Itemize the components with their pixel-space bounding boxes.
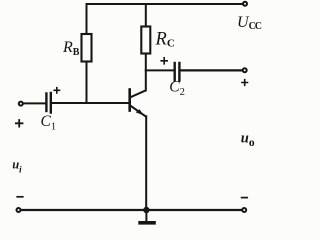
resistor RC xyxy=(141,27,150,54)
svg-text:uo: uo xyxy=(241,131,255,149)
svg-text:ui: ui xyxy=(12,158,22,175)
wire input to C1 xyxy=(24,102,45,104)
plus sign near C2 xyxy=(161,58,167,64)
wire RC top lead xyxy=(145,4,147,27)
terminal bottom-left xyxy=(17,208,21,212)
minus sign bottom-right xyxy=(242,197,248,199)
ground xyxy=(145,212,147,221)
wire RB bottom lead xyxy=(86,62,88,103)
svg-text:C2: C2 xyxy=(169,78,185,98)
svg-text:RC: RC xyxy=(155,30,175,50)
plus sign below input terminal xyxy=(16,120,23,127)
terminal bottom-right xyxy=(242,208,246,212)
transistor Q1 base bar xyxy=(128,90,131,111)
wire emitter vertical xyxy=(145,116,147,209)
wire C2 branch xyxy=(146,69,174,71)
wire bottom rail xyxy=(21,209,241,211)
terminal input xyxy=(19,102,23,106)
transistor Q1 emitter diagonal with arrow xyxy=(130,106,145,117)
svg-text:C1: C1 xyxy=(41,113,57,133)
wire RB top lead xyxy=(86,4,88,34)
wire C1 to base xyxy=(52,102,129,104)
plus sign below output terminal xyxy=(242,80,248,86)
wire top rail Ucc xyxy=(87,3,243,5)
junction dot emitter/ground xyxy=(143,207,149,213)
capacitor C1 xyxy=(45,94,47,112)
resistor RB xyxy=(82,34,92,62)
capacitor C2 xyxy=(173,63,175,81)
terminal Ucc xyxy=(243,2,247,6)
wire C2 to output xyxy=(181,69,242,71)
plus sign near C1 xyxy=(54,88,59,93)
transistor Q1 collector diagonal xyxy=(130,91,145,98)
minus sign bottom-left xyxy=(17,196,23,198)
svg-text:RB: RB xyxy=(62,39,80,58)
wire RC bottom lead / collector vertical xyxy=(145,54,147,91)
svg-text:UCC: UCC xyxy=(237,14,262,32)
terminal output xyxy=(243,68,247,72)
